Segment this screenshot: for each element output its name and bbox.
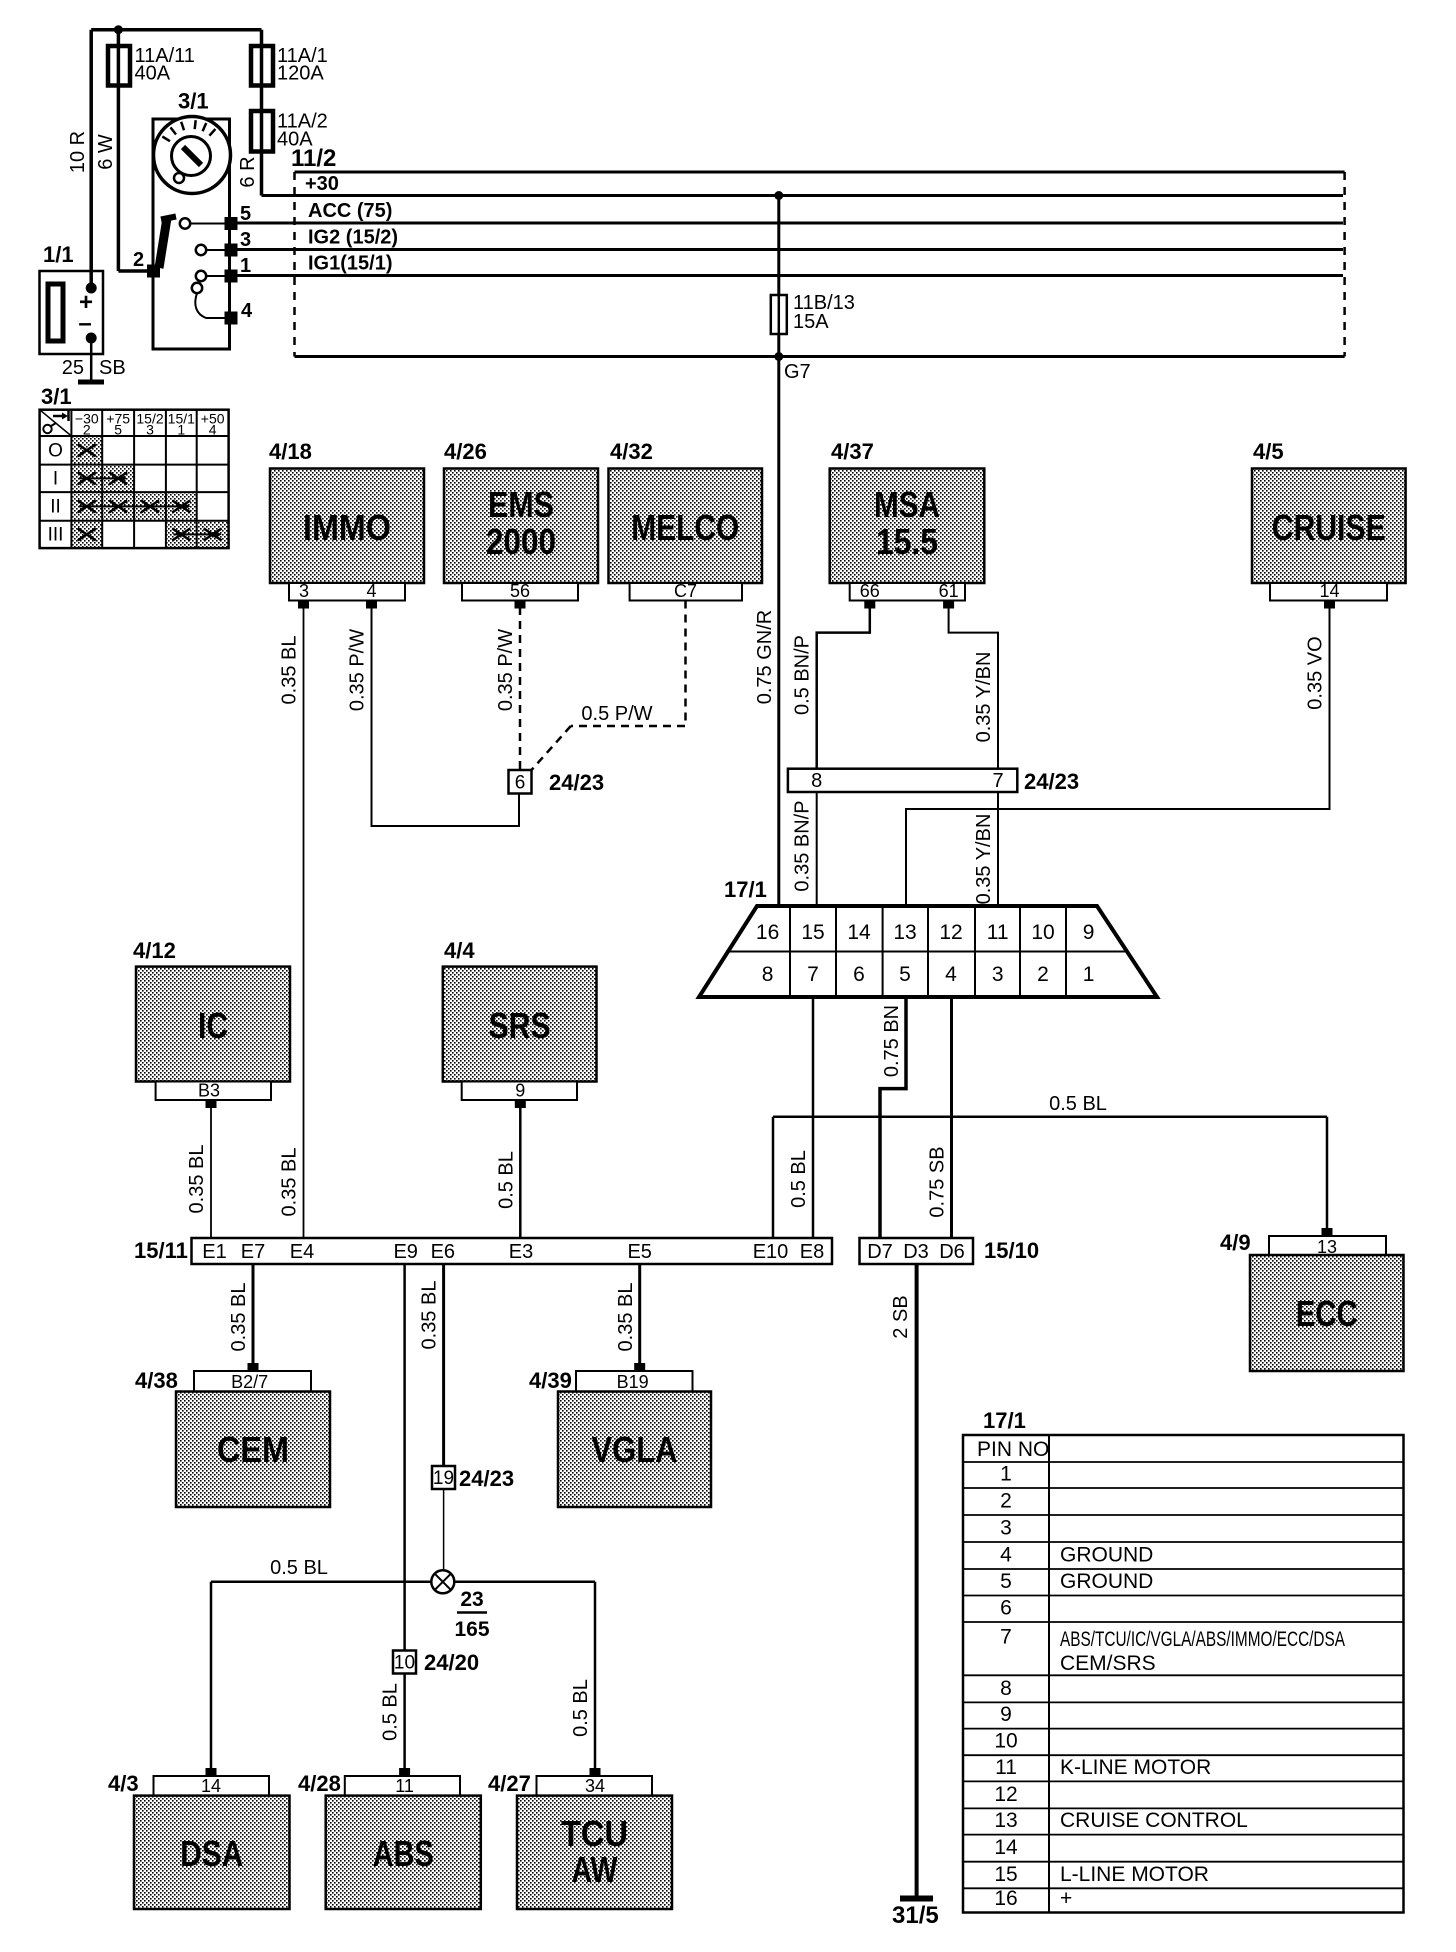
svg-text:6: 6 <box>1000 1597 1012 1620</box>
svg-text:E9: E9 <box>393 1241 417 1263</box>
svg-text:2 SB: 2 SB <box>890 1295 912 1338</box>
svg-text:IMMO: IMMO <box>303 507 391 548</box>
svg-text:IC: IC <box>198 1005 228 1046</box>
svg-text:1/1: 1/1 <box>43 242 74 267</box>
svg-text:8: 8 <box>762 963 774 986</box>
svg-text:56: 56 <box>510 581 530 601</box>
svg-text:7: 7 <box>1000 1625 1012 1648</box>
svg-text:4/18: 4/18 <box>269 439 312 464</box>
svg-text:24/20: 24/20 <box>424 1650 479 1675</box>
svg-text:0.75 BN: 0.75 BN <box>881 1005 903 1077</box>
svg-text:7: 7 <box>992 770 1003 792</box>
svg-text:0.75 GN/R: 0.75 GN/R <box>754 610 776 704</box>
svg-text:17/1: 17/1 <box>724 877 767 902</box>
svg-text:0.5 BL: 0.5 BL <box>495 1151 517 1209</box>
svg-text:0.35 BL: 0.35 BL <box>615 1283 637 1352</box>
svg-text:0.35 BL: 0.35 BL <box>186 1145 208 1214</box>
svg-text:13: 13 <box>893 921 916 944</box>
svg-text:15/10: 15/10 <box>984 1238 1039 1263</box>
svg-text:24/23: 24/23 <box>1024 769 1079 794</box>
svg-text:0.35 BL: 0.35 BL <box>279 1148 301 1217</box>
svg-text:15: 15 <box>994 1863 1017 1886</box>
svg-text:1: 1 <box>240 255 251 277</box>
svg-text:165: 165 <box>454 1618 489 1641</box>
svg-text:ABS/TCU/IC/VGLA/ABS/IMMO/ECC/D: ABS/TCU/IC/VGLA/ABS/IMMO/ECC/DSA <box>1060 1628 1345 1651</box>
svg-text:15/11: 15/11 <box>134 1238 188 1263</box>
svg-text:4/38: 4/38 <box>135 1368 178 1393</box>
svg-text:0.35 VO: 0.35 VO <box>1305 636 1327 709</box>
svg-text:14: 14 <box>1319 581 1339 601</box>
svg-text:4/37: 4/37 <box>831 439 874 464</box>
svg-text:E1: E1 <box>202 1241 226 1263</box>
svg-text:15.5: 15.5 <box>876 521 938 562</box>
svg-text:4/39: 4/39 <box>529 1368 572 1393</box>
svg-text:11: 11 <box>995 1756 1017 1779</box>
svg-text:IG1(15/1): IG1(15/1) <box>308 253 392 275</box>
svg-text:AW: AW <box>572 1849 618 1890</box>
svg-text:SB: SB <box>99 357 126 379</box>
svg-text:3/1: 3/1 <box>178 89 209 114</box>
svg-text:15: 15 <box>801 921 824 944</box>
svg-text:6 R: 6 R <box>237 156 259 187</box>
svg-text:4: 4 <box>945 963 957 986</box>
svg-text:25: 25 <box>62 357 84 379</box>
svg-text:ECC: ECC <box>1296 1293 1358 1334</box>
svg-text:+30: +30 <box>305 173 339 195</box>
svg-text:19: 19 <box>433 1468 454 1489</box>
svg-text:23: 23 <box>460 1588 483 1611</box>
svg-text:5: 5 <box>899 963 911 986</box>
svg-text:D6: D6 <box>939 1241 965 1263</box>
svg-text:PIN NO: PIN NO <box>977 1438 1049 1461</box>
svg-text:15A: 15A <box>793 311 829 333</box>
svg-text:5: 5 <box>114 422 122 438</box>
svg-text:G7: G7 <box>784 361 811 383</box>
svg-text:8: 8 <box>811 770 822 792</box>
svg-text:E5: E5 <box>627 1241 651 1263</box>
svg-text:34: 34 <box>585 1776 605 1796</box>
svg-text:0.35 Y/BN: 0.35 Y/BN <box>973 652 995 743</box>
svg-text:9: 9 <box>1083 921 1095 944</box>
svg-text:3: 3 <box>240 229 251 251</box>
svg-text:CEM: CEM <box>217 1429 289 1470</box>
svg-text:3: 3 <box>1000 1517 1012 1540</box>
svg-text:ACC (75): ACC (75) <box>308 200 392 222</box>
svg-text:1: 1 <box>1000 1463 1012 1486</box>
svg-text:B2/7: B2/7 <box>231 1372 268 1392</box>
svg-text:1: 1 <box>177 422 185 438</box>
svg-text:14: 14 <box>847 921 871 944</box>
svg-text:IG2 (15/2): IG2 (15/2) <box>308 227 398 249</box>
svg-text:4: 4 <box>1000 1544 1012 1567</box>
svg-text:0.5 BL: 0.5 BL <box>380 1683 402 1741</box>
svg-text:9: 9 <box>515 1081 525 1101</box>
svg-text:0.35 Y/BN: 0.35 Y/BN <box>973 814 995 905</box>
svg-text:1: 1 <box>1083 963 1095 986</box>
svg-text:11: 11 <box>395 1776 414 1796</box>
svg-text:9: 9 <box>1000 1703 1012 1726</box>
svg-text:24/23: 24/23 <box>459 1466 514 1491</box>
svg-text:4/27: 4/27 <box>488 1771 531 1796</box>
svg-text:EMS: EMS <box>488 484 554 525</box>
svg-text:SRS: SRS <box>489 1005 551 1046</box>
svg-text:0.35 BL: 0.35 BL <box>228 1283 250 1352</box>
svg-text:TCU: TCU <box>561 1813 628 1854</box>
svg-text:B3: B3 <box>198 1081 220 1101</box>
svg-text:66: 66 <box>860 581 880 601</box>
svg-text:III: III <box>48 524 64 545</box>
svg-text:10: 10 <box>994 1730 1017 1753</box>
svg-text:CEM/SRS: CEM/SRS <box>1060 1652 1156 1675</box>
svg-text:VGLA: VGLA <box>592 1429 678 1470</box>
svg-text:2: 2 <box>1000 1490 1012 1513</box>
svg-text:MELCO: MELCO <box>631 507 739 548</box>
svg-text:D3: D3 <box>903 1241 929 1263</box>
svg-text:GROUND: GROUND <box>1060 1544 1153 1567</box>
svg-text:4/26: 4/26 <box>444 439 487 464</box>
svg-text:7: 7 <box>807 963 819 986</box>
svg-text:17/1: 17/1 <box>983 1408 1026 1433</box>
svg-text:K-LINE MOTOR: K-LINE MOTOR <box>1060 1756 1211 1779</box>
svg-text:II: II <box>50 496 61 517</box>
svg-text:0.35 BL: 0.35 BL <box>419 1281 441 1350</box>
svg-text:0.35 BN/P: 0.35 BN/P <box>792 800 814 891</box>
svg-text:E6: E6 <box>431 1241 455 1263</box>
svg-text:0.5 BL: 0.5 BL <box>570 1679 592 1737</box>
svg-text:5: 5 <box>1000 1570 1012 1593</box>
svg-text:10: 10 <box>1031 921 1054 944</box>
svg-text:31/5: 31/5 <box>892 1902 939 1929</box>
svg-text:ABS: ABS <box>373 1833 434 1874</box>
svg-text:2: 2 <box>133 249 144 271</box>
svg-text:11: 11 <box>987 921 1009 944</box>
svg-text:12: 12 <box>939 921 962 944</box>
svg-text:E3: E3 <box>509 1241 533 1263</box>
svg-text:CRUISE CONTROL: CRUISE CONTROL <box>1060 1809 1248 1832</box>
svg-text:61: 61 <box>939 581 959 601</box>
svg-text:10 R: 10 R <box>67 131 89 173</box>
svg-text:4/3: 4/3 <box>108 1771 139 1796</box>
svg-text:8: 8 <box>1000 1677 1012 1700</box>
svg-text:2000: 2000 <box>486 521 556 562</box>
svg-text:CRUISE: CRUISE <box>1272 507 1386 548</box>
svg-text:4: 4 <box>241 300 253 322</box>
svg-text:2: 2 <box>1037 963 1049 986</box>
svg-text:16: 16 <box>756 921 779 944</box>
svg-text:GROUND: GROUND <box>1060 1570 1153 1593</box>
svg-text:120A: 120A <box>277 63 324 85</box>
svg-text:0.35 P/W: 0.35 P/W <box>347 629 369 711</box>
svg-text:4/12: 4/12 <box>133 938 176 963</box>
svg-text:L-LINE MOTOR: L-LINE MOTOR <box>1060 1863 1209 1886</box>
svg-text:0.5 BL: 0.5 BL <box>788 1150 810 1208</box>
svg-text:4: 4 <box>366 581 376 601</box>
svg-text:6: 6 <box>853 963 865 986</box>
svg-text:0.5 BL: 0.5 BL <box>270 1557 328 1579</box>
svg-text:4/28: 4/28 <box>298 1771 341 1796</box>
svg-text:E4: E4 <box>290 1241 314 1263</box>
svg-text:4: 4 <box>209 422 217 438</box>
svg-text:4/5: 4/5 <box>1253 439 1284 464</box>
svg-text:12: 12 <box>994 1783 1017 1806</box>
svg-text:+: + <box>1060 1887 1072 1910</box>
svg-text:13: 13 <box>994 1809 1017 1832</box>
svg-text:4/4: 4/4 <box>444 938 475 963</box>
svg-text:DSA: DSA <box>180 1833 243 1874</box>
svg-text:E8: E8 <box>800 1241 824 1263</box>
svg-text:0.35 BL: 0.35 BL <box>279 636 301 705</box>
svg-text:B19: B19 <box>617 1372 649 1392</box>
svg-text:0.5 BN/P: 0.5 BN/P <box>792 635 814 715</box>
svg-text:10: 10 <box>394 1653 415 1674</box>
svg-text:4/9: 4/9 <box>1220 1230 1251 1255</box>
svg-text:3: 3 <box>299 581 309 601</box>
svg-text:4/32: 4/32 <box>610 439 653 464</box>
svg-text:O: O <box>48 440 63 461</box>
svg-text:C7: C7 <box>674 581 697 601</box>
svg-text:14: 14 <box>994 1836 1018 1859</box>
svg-text:3: 3 <box>146 422 154 438</box>
svg-text:0.35 P/W: 0.35 P/W <box>495 629 517 711</box>
svg-text:3/1: 3/1 <box>41 384 72 409</box>
svg-text:6 W: 6 W <box>95 134 117 170</box>
svg-text:I: I <box>53 468 58 489</box>
svg-text:0.75 SB: 0.75 SB <box>927 1146 949 1217</box>
svg-text:E7: E7 <box>241 1241 265 1263</box>
svg-text:5: 5 <box>240 203 251 225</box>
svg-text:40A: 40A <box>135 63 171 85</box>
svg-text:D7: D7 <box>867 1241 893 1263</box>
svg-text:14: 14 <box>201 1776 221 1796</box>
svg-text:0.5 P/W: 0.5 P/W <box>581 703 652 725</box>
svg-text:24/23: 24/23 <box>549 770 604 795</box>
svg-text:0.5 BL: 0.5 BL <box>1049 1093 1107 1115</box>
svg-text:16: 16 <box>994 1887 1017 1910</box>
svg-text:MSA: MSA <box>874 484 940 525</box>
svg-text:2: 2 <box>83 422 91 438</box>
svg-text:40A: 40A <box>277 129 313 151</box>
svg-text:3: 3 <box>992 963 1004 986</box>
svg-text:6: 6 <box>515 773 526 794</box>
svg-text:E10: E10 <box>753 1241 789 1263</box>
